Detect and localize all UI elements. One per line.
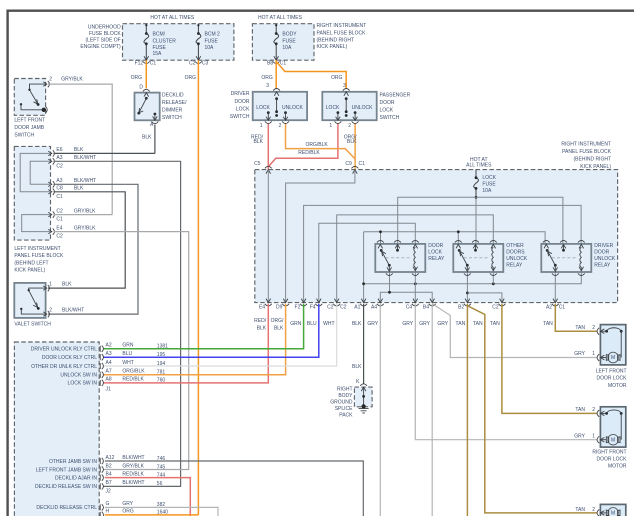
svg-text:C2: C2 (56, 208, 63, 214)
svg-text:UNLOCK: UNLOCK (282, 105, 304, 111)
svg-text:TAN: TAN (575, 507, 585, 513)
svg-text:C1: C1 (359, 161, 366, 167)
svg-text:DRIVER: DRIVER (231, 91, 250, 97)
svg-text:DOORS: DOORS (506, 249, 525, 255)
svg-text:C1: C1 (56, 217, 63, 223)
svg-text:C2: C2 (56, 234, 63, 240)
svg-text:745: 745 (157, 464, 166, 470)
svg-text:UNLOCK SW IN: UNLOCK SW IN (60, 373, 97, 379)
svg-text:BLK: BLK (352, 364, 362, 370)
svg-text:C5: C5 (254, 161, 261, 167)
svg-text:2: 2 (279, 123, 282, 129)
svg-text:B7: B7 (106, 480, 112, 486)
svg-text:DECKLID AJAR IN: DECKLID AJAR IN (55, 475, 97, 481)
svg-text:OTHER JAMB SW IN: OTHER JAMB SW IN (49, 459, 97, 465)
svg-text:PANEL FUSE BLOCK: PANEL FUSE BLOCK (562, 149, 612, 155)
svg-text:B4: B4 (106, 471, 112, 477)
svg-text:RED/BLK: RED/BLK (122, 377, 144, 383)
svg-text:DECKLID: DECKLID (162, 93, 184, 99)
svg-text:DOOR JAMB: DOOR JAMB (14, 125, 44, 131)
svg-text:TAN: TAN (456, 321, 466, 327)
svg-text:TAN: TAN (490, 321, 500, 327)
svg-text:2: 2 (348, 123, 351, 129)
svg-text:B2: B2 (106, 463, 112, 469)
svg-text:2: 2 (49, 307, 52, 313)
svg-text:SPLICE: SPLICE (335, 406, 353, 412)
svg-text:DECKLID RELEASE CTRL: DECKLID RELEASE CTRL (36, 505, 97, 511)
svg-text:UNLOCK: UNLOCK (594, 256, 616, 262)
svg-text:CLUSTER: CLUSTER (153, 39, 177, 45)
svg-text:A3: A3 (56, 155, 62, 161)
svg-text:MOTOR: MOTOR (608, 383, 627, 389)
svg-text:TAN: TAN (473, 321, 483, 327)
svg-text:LEFT FRONT: LEFT FRONT (14, 118, 45, 124)
svg-text:C9: C9 (345, 161, 352, 167)
svg-text:LOCK: LOCK (428, 249, 442, 255)
svg-text:ORG/: ORG/ (271, 318, 284, 324)
svg-text:10A: 10A (205, 45, 215, 51)
svg-text:760: 760 (157, 378, 166, 384)
svg-text:C3: C3 (202, 60, 209, 66)
svg-text:RIGHT FRONT: RIGHT FRONT (592, 449, 626, 455)
svg-text:UNLOCK: UNLOCK (352, 105, 374, 111)
svg-text:BLK: BLK (74, 186, 84, 192)
svg-text:TAN: TAN (543, 321, 553, 327)
svg-text:A4: A4 (106, 360, 112, 366)
svg-text:BCM 2: BCM 2 (205, 31, 221, 37)
svg-text:RIGHT: RIGHT (337, 386, 353, 392)
svg-text:ORG: ORG (261, 75, 273, 81)
svg-text:1: 1 (260, 123, 263, 129)
svg-text:LOCK: LOCK (326, 105, 340, 111)
svg-text:ORG: ORG (185, 75, 197, 81)
svg-text:VALET SWITCH: VALET SWITCH (14, 322, 51, 328)
svg-text:A2: A2 (546, 305, 552, 311)
svg-text:J2: J2 (106, 489, 112, 495)
svg-text:(BEHIND RIGHT: (BEHIND RIGHT (317, 37, 355, 43)
svg-text:MOTOR: MOTOR (608, 464, 627, 470)
svg-text:A12: A12 (106, 455, 115, 461)
svg-text:G: G (106, 501, 110, 507)
svg-text:A4: A4 (371, 305, 377, 311)
svg-text:ORG/BLK: ORG/BLK (305, 142, 328, 148)
svg-text:KICK PANEL): KICK PANEL) (317, 44, 348, 50)
svg-text:10A: 10A (282, 45, 292, 51)
svg-text:LOCK: LOCK (482, 175, 496, 181)
svg-text:SWITCH: SWITCH (380, 115, 400, 121)
svg-text:PANEL FUSE BLOCK: PANEL FUSE BLOCK (14, 253, 64, 259)
svg-text:ORG: ORG (122, 509, 133, 515)
svg-text:PASSENGER: PASSENGER (380, 93, 411, 99)
svg-text:1: 1 (329, 123, 332, 129)
svg-text:3: 3 (343, 83, 346, 89)
svg-text:GRY: GRY (122, 501, 133, 507)
svg-text:M: M (611, 511, 615, 516)
svg-text:BLK/WHT: BLK/WHT (122, 480, 144, 486)
svg-text:F12: F12 (135, 60, 144, 66)
svg-text:F2: F2 (295, 305, 301, 311)
svg-text:GRY: GRY (402, 321, 413, 327)
svg-text:BLK: BLK (142, 135, 152, 141)
svg-text:DOOR LOCK: DOOR LOCK (596, 376, 627, 382)
svg-text:A8: A8 (106, 377, 112, 383)
svg-text:RED/BLK: RED/BLK (298, 150, 320, 156)
svg-text:KICK PANEL): KICK PANEL) (14, 268, 45, 274)
svg-text:GRY/BLK: GRY/BLK (61, 76, 83, 82)
svg-text:HOT AT ALL TIMES: HOT AT ALL TIMES (258, 15, 303, 21)
svg-text:E6: E6 (56, 147, 62, 153)
svg-text:TAN: TAN (575, 407, 585, 413)
svg-text:A1: A1 (354, 305, 360, 311)
svg-text:194: 194 (157, 361, 166, 367)
svg-text:DOOR: DOOR (380, 100, 395, 106)
svg-text:GRY: GRY (437, 321, 448, 327)
svg-text:RED/: RED/ (254, 318, 267, 324)
svg-text:RED/BLK: RED/BLK (122, 471, 144, 477)
svg-text:F4: F4 (310, 305, 316, 311)
svg-text:C8: C8 (56, 186, 63, 192)
svg-text:BLK: BLK (62, 281, 72, 287)
svg-text:BLK: BLK (257, 326, 267, 332)
svg-text:DRIVER UNLOCK RLY CTRL: DRIVER UNLOCK RLY CTRL (31, 347, 97, 353)
svg-text:E4: E4 (56, 225, 62, 231)
svg-text:C1: C1 (150, 60, 157, 66)
svg-text:RELEASE/: RELEASE/ (162, 100, 187, 106)
svg-text:GRN: GRN (290, 321, 302, 327)
svg-text:BCM/: BCM/ (153, 31, 166, 37)
svg-text:DOOR: DOOR (428, 243, 443, 249)
svg-text:PACK: PACK (339, 412, 353, 418)
svg-text:M: M (611, 437, 615, 443)
svg-text:2: 2 (49, 76, 52, 82)
svg-text:BLK/WHT: BLK/WHT (74, 155, 96, 161)
svg-text:BLK: BLK (254, 139, 264, 145)
svg-text:UNDERHOOD: UNDERHOOD (88, 24, 121, 30)
svg-text:OTHER: OTHER (506, 243, 524, 249)
svg-text:DOOR: DOOR (594, 249, 609, 255)
svg-text:K: K (356, 379, 360, 385)
svg-text:C1: C1 (280, 60, 287, 66)
svg-text:ALL TIMES: ALL TIMES (466, 163, 492, 169)
svg-text:A3: A3 (56, 178, 62, 184)
svg-text:LEFT FRONT: LEFT FRONT (596, 369, 627, 375)
svg-text:RIGHT INSTRUMENT: RIGHT INSTRUMENT (561, 141, 611, 147)
svg-text:2: 2 (592, 407, 595, 413)
svg-text:SWITCH: SWITCH (14, 133, 34, 139)
svg-text:195: 195 (157, 352, 166, 358)
svg-text:GRN: GRN (122, 343, 133, 349)
svg-text:BODY: BODY (282, 31, 297, 37)
svg-text:UNLOCK: UNLOCK (506, 256, 528, 262)
svg-text:A3: A3 (106, 351, 112, 357)
svg-text:FUSE: FUSE (205, 39, 219, 45)
svg-text:TAN: TAN (575, 325, 585, 331)
svg-text:M: M (611, 355, 615, 361)
svg-text:DOOR: DOOR (235, 99, 250, 105)
svg-text:HOT AT ALL TIMES: HOT AT ALL TIMES (150, 15, 195, 21)
svg-text:C4: C4 (406, 305, 413, 311)
svg-text:D: D (139, 84, 143, 90)
svg-text:C1: C1 (559, 305, 566, 311)
svg-text:WHT: WHT (122, 360, 133, 366)
svg-text:GRY/BLK: GRY/BLK (122, 463, 144, 469)
svg-text:A2: A2 (106, 343, 112, 349)
svg-text:RIGHT INSTRUMENT: RIGHT INSTRUMENT (317, 23, 367, 29)
svg-text:GRY: GRY (574, 351, 585, 357)
svg-text:BODY: BODY (338, 393, 353, 399)
svg-text:DECKLID RELEASE SW IN: DECKLID RELEASE SW IN (35, 484, 97, 490)
svg-text:C1: C1 (56, 194, 63, 200)
svg-text:LOCK SW IN: LOCK SW IN (68, 381, 98, 387)
svg-text:FUSE: FUSE (282, 39, 296, 45)
svg-text:GRY: GRY (419, 321, 430, 327)
svg-text:(BEHIND RIGHT: (BEHIND RIGHT (574, 156, 612, 162)
svg-text:E4: E4 (259, 305, 265, 311)
svg-text:FUSE BLOCK: FUSE BLOCK (89, 31, 121, 37)
svg-text:DIMMER: DIMMER (162, 108, 183, 114)
svg-text:GRY/BLK: GRY/BLK (74, 208, 96, 214)
svg-text:D9: D9 (276, 305, 283, 311)
svg-text:BLK: BLK (352, 321, 362, 327)
svg-text:LEFT INSTRUMENT: LEFT INSTRUMENT (14, 246, 60, 252)
svg-text:10A: 10A (482, 188, 492, 194)
svg-text:BLU: BLU (307, 321, 317, 327)
svg-text:BLK/WHT: BLK/WHT (74, 178, 96, 184)
svg-text:GROUND: GROUND (330, 399, 353, 405)
svg-text:ENGINE COMPT): ENGINE COMPT) (80, 44, 121, 50)
svg-text:BLK: BLK (74, 147, 84, 153)
svg-text:2: 2 (592, 507, 595, 513)
svg-text:BLK/WHT: BLK/WHT (62, 307, 84, 313)
svg-text:OTHER DR UNLK RLY CTRL: OTHER DR UNLK RLY CTRL (31, 364, 97, 370)
svg-text:C2: C2 (56, 163, 63, 169)
svg-text:DRIVER: DRIVER (594, 243, 613, 249)
svg-text:PANEL FUSE BLOCK: PANEL FUSE BLOCK (317, 31, 367, 37)
svg-text:ORG: ORG (131, 75, 143, 81)
svg-text:(BEHIND LEFT: (BEHIND LEFT (14, 260, 48, 266)
svg-text:SWITCH: SWITCH (162, 115, 182, 121)
svg-text:KICK PANEL): KICK PANEL) (580, 164, 611, 170)
svg-text:WHT: WHT (323, 321, 334, 327)
svg-text:H: H (106, 509, 110, 515)
svg-text:J1: J1 (106, 386, 112, 392)
svg-text:1: 1 (592, 351, 595, 357)
svg-text:GRY: GRY (574, 433, 585, 439)
svg-text:781: 781 (157, 370, 166, 376)
svg-text:3: 3 (266, 83, 269, 89)
svg-text:(LEFT SIDE OF: (LEFT SIDE OF (85, 37, 120, 43)
svg-text:C2: C2 (340, 305, 347, 311)
svg-text:LOCK: LOCK (256, 105, 270, 111)
svg-text:GRY/BLK: GRY/BLK (74, 225, 96, 231)
svg-text:RELAY: RELAY (428, 256, 445, 262)
svg-text:BLU: BLU (122, 351, 132, 357)
svg-text:1381: 1381 (157, 344, 168, 350)
svg-text:LOCK: LOCK (236, 106, 250, 112)
svg-text:C2: C2 (327, 305, 334, 311)
svg-text:FUSE: FUSE (482, 181, 496, 187)
svg-text:56: 56 (157, 481, 163, 487)
svg-text:SWITCH: SWITCH (230, 114, 250, 120)
svg-text:DOOR LOCK RLY CTRL: DOOR LOCK RLY CTRL (42, 355, 97, 361)
svg-text:LEFT FRONT JAMB SW IN: LEFT FRONT JAMB SW IN (36, 467, 98, 473)
svg-text:BLK: BLK (347, 139, 357, 145)
svg-text:ORG/BLK: ORG/BLK (122, 369, 145, 375)
svg-text:B8: B8 (267, 60, 273, 66)
svg-text:BLK: BLK (274, 326, 284, 332)
svg-text:RELAY: RELAY (506, 262, 523, 268)
svg-text:15A: 15A (153, 51, 163, 57)
svg-text:2: 2 (592, 325, 595, 331)
svg-text:B2: B2 (458, 305, 464, 311)
svg-text:A7: A7 (106, 369, 112, 375)
svg-text:C2: C2 (492, 305, 499, 311)
svg-text:RELAY: RELAY (594, 262, 611, 268)
svg-text:1: 1 (49, 281, 52, 287)
svg-text:B4: B4 (423, 305, 429, 311)
svg-text:GRY: GRY (367, 321, 378, 327)
svg-text:LOCK: LOCK (380, 108, 394, 114)
svg-text:C2: C2 (189, 60, 196, 66)
svg-text:BLK/WHT: BLK/WHT (122, 455, 144, 461)
svg-text:DOOR LOCK: DOOR LOCK (596, 456, 627, 462)
svg-text:1: 1 (592, 433, 595, 439)
svg-text:ORG: ORG (331, 75, 343, 81)
